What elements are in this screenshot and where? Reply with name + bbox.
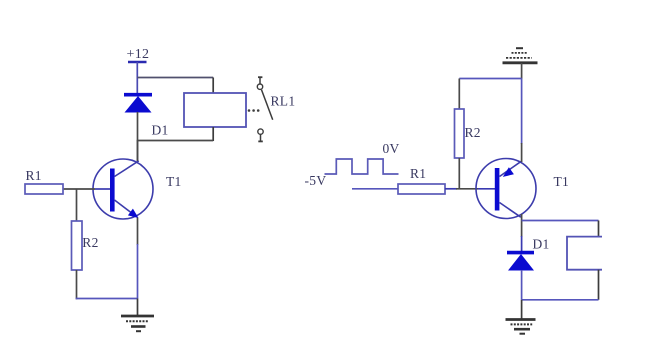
wire relay bottom to collector node [137, 140, 213, 142]
ground bottom right [506, 320, 536, 334]
wire relay bottom stub [212, 127, 214, 141]
transistor T1 right emitter arrow [503, 167, 514, 177]
wire R2 bottom down [76, 270, 78, 299]
wire load bottom stub [598, 270, 600, 300]
wire emitter down upper [137, 218, 139, 246]
svg-text:D1: D1 [152, 123, 169, 138]
ground left [121, 316, 154, 331]
wire bottom horizontal to emitter [76, 298, 138, 300]
svg-text:-5V: -5V [305, 173, 327, 188]
wire down to R2 top [458, 79, 460, 110]
transistor T1 right emitter line [500, 161, 522, 176]
transistor T1 right circle [476, 159, 536, 219]
wire emitter up gray part [521, 143, 523, 162]
wire +12 branch to relay top [137, 77, 213, 79]
input square wave [325, 159, 399, 174]
switch contact top tick [258, 76, 262, 78]
wire to ground bottom right [521, 300, 523, 319]
svg-text:T1: T1 [166, 174, 182, 189]
wire top rail to R2 [459, 78, 521, 80]
svg-text:T1: T1 [554, 174, 570, 189]
svg-text:D1: D1 [533, 237, 550, 252]
wire base node to base [456, 188, 478, 190]
switch contact top stub [259, 77, 261, 84]
switch contact bottom circle [258, 129, 263, 134]
wire input to R1 [352, 188, 398, 190]
wire emitter down lower [137, 244, 139, 299]
transistor T1 left collector line [115, 161, 139, 177]
relay coil RL1 rectangle [184, 93, 246, 127]
svg-text:R1: R1 [26, 168, 42, 183]
svg-text:R2: R2 [82, 235, 98, 250]
wire load top stub [598, 221, 600, 238]
resistor R2 left [72, 221, 83, 270]
wire collector down [521, 214, 523, 237]
power rail +12 bar [128, 61, 147, 64]
wire relay top stub [212, 78, 214, 94]
wire D1 to collector [137, 112, 139, 161]
diode D1 triangle [125, 96, 152, 113]
transistor T1 left emitter line [115, 200, 134, 214]
load bracket [567, 237, 602, 270]
svg-text:+12: +12 [127, 47, 150, 62]
diode D1 right triangle [508, 254, 534, 271]
wire bottom horizontal [522, 299, 599, 301]
switch linkage dots [248, 109, 251, 112]
svg-text:R1: R1 [410, 166, 426, 181]
transistor T1 right collector line [500, 203, 521, 218]
switch contact top circle [257, 84, 262, 89]
svg-text:0V: 0V [383, 141, 400, 156]
switch arm RL1 [262, 90, 273, 120]
wire collector up [137, 140, 139, 161]
transistor T1 left emitter arrow [128, 209, 139, 218]
wire +12 down to D1 [136, 62, 138, 94]
ground top right (inverted) [503, 48, 538, 63]
svg-text:R2: R2 [465, 125, 481, 140]
resistor R1 right [398, 184, 445, 194]
diode D1 cathode bar [124, 93, 152, 97]
resistor R1 left [25, 184, 63, 194]
switch contact bottom tick [258, 140, 263, 142]
wire top ground stub [521, 63, 523, 79]
wire to ground left [137, 299, 139, 316]
transistor T1 left circle [93, 159, 153, 219]
svg-text:RL1: RL1 [271, 94, 296, 109]
wire R2 bottom to base node [458, 158, 460, 189]
resistor R2 right [455, 109, 465, 158]
transistor T1 left base bar [110, 169, 115, 212]
transistor T1 right base bar [495, 168, 500, 211]
wire collector node to load [522, 220, 599, 222]
switch contact bottom stub [260, 134, 262, 141]
wire base node down to R2 [76, 189, 78, 221]
wire base left [63, 188, 96, 190]
diode D1 right cathode bar [507, 251, 534, 255]
wire emitter up blue part [521, 79, 523, 145]
wire D1 down [521, 270, 523, 300]
wire R1 to base node [445, 188, 457, 190]
